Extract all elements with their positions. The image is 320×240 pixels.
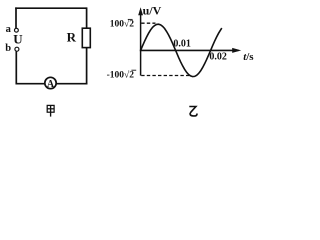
wire right upper bbox=[86, 7, 88, 28]
y-axis u/V bbox=[140, 10, 142, 76]
wire top bbox=[15, 7, 86, 9]
wire right lower bbox=[86, 48, 88, 85]
dashed line +100sqrt2 bbox=[141, 22, 155, 24]
node a terminal bbox=[15, 28, 19, 32]
label jia (甲) bbox=[47, 105, 54, 116]
svg-text:t/s: t/s bbox=[243, 51, 254, 63]
label yi (乙) bbox=[189, 107, 197, 116]
label 100sqrt2 bbox=[110, 19, 134, 30]
x-axis t/s bbox=[140, 49, 239, 51]
wire left lower bbox=[15, 51, 17, 84]
svg-text:U: U bbox=[13, 31, 23, 46]
svg-text:0.01: 0.01 bbox=[173, 38, 191, 49]
wire left upper bbox=[15, 7, 17, 28]
svg-text:100√2: 100√2 bbox=[110, 19, 134, 30]
svg-text:-100√2: -100√2 bbox=[107, 69, 135, 80]
ammeter A1 bbox=[45, 77, 56, 90]
sine curve u(t) bbox=[141, 24, 222, 76]
label -100sqrt2 bbox=[107, 69, 137, 80]
svg-text:b: b bbox=[5, 43, 11, 54]
wire bottom right bbox=[56, 83, 87, 85]
svg-text:A: A bbox=[47, 79, 55, 90]
dashed line -100sqrt2 bbox=[141, 75, 190, 77]
node b terminal bbox=[15, 47, 19, 51]
svg-text:R: R bbox=[67, 29, 77, 44]
svg-text:0.02: 0.02 bbox=[209, 51, 227, 62]
svg-text:a: a bbox=[6, 24, 12, 35]
resistor R bbox=[82, 28, 90, 47]
wire bottom left bbox=[16, 83, 45, 85]
svg-text:u/V: u/V bbox=[143, 4, 162, 18]
